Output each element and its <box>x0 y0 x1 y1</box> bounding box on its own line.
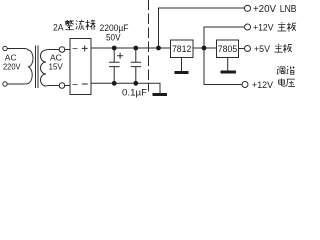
svg-text:2A: 2A <box>53 23 64 34</box>
svg-text:15V: 15V <box>49 62 64 72</box>
svg-text:+5V: +5V <box>254 44 271 55</box>
svg-text:~: ~ <box>72 79 78 91</box>
svg-text:2200µF: 2200µF <box>100 23 129 33</box>
svg-text:7812: 7812 <box>172 44 192 54</box>
svg-text:LNB: LNB <box>280 4 297 15</box>
svg-text:220V: 220V <box>3 62 21 72</box>
svg-text:+20V: +20V <box>253 4 276 15</box>
svg-text:~: ~ <box>72 43 78 55</box>
svg-text:0.1µF: 0.1µF <box>122 88 147 99</box>
svg-text:50V: 50V <box>106 33 121 43</box>
svg-text:7805: 7805 <box>218 44 238 54</box>
svg-text:+12V: +12V <box>252 80 274 91</box>
svg-text:+12V: +12V <box>253 23 274 34</box>
